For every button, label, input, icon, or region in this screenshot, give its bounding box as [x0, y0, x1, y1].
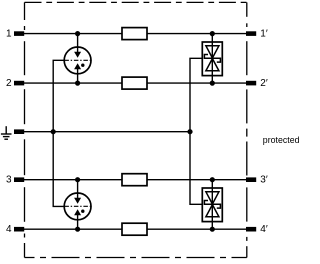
- module boundary dashed border top: [25, 1, 247, 3]
- suppressor diode module D2 (lines 3-4): [202, 180, 222, 230]
- svg-text:2: 2: [6, 78, 12, 89]
- module boundary dashed border right: [246, 2, 248, 257]
- junction dot ground/GDT electrode: [51, 129, 56, 134]
- wire GDT center-electrode vertical (x=53): [53, 60, 64, 206]
- svg-text:1: 1: [6, 28, 12, 39]
- svg-text:3′: 3′: [260, 175, 268, 186]
- wire TVS center-tap vertical (x=190): [190, 58, 202, 204]
- gas discharge tube F2 (lines 3-4): [64, 193, 91, 220]
- svg-text:protected: protected: [263, 135, 300, 145]
- terminal pad 4': [246, 227, 256, 232]
- terminal pad 3': [246, 177, 256, 182]
- svg-text:4′: 4′: [260, 224, 268, 235]
- terminal pad 4: [14, 227, 24, 232]
- ground symbol: [1, 126, 12, 139]
- svg-text:2′: 2′: [260, 78, 268, 89]
- svg-text:3: 3: [6, 175, 12, 186]
- terminal pad 1: [14, 31, 24, 36]
- svg-text:1′: 1′: [260, 28, 268, 39]
- junction dot line4/D2: [210, 227, 215, 232]
- wire line 1: [24, 33, 247, 35]
- wire line 3: [24, 179, 247, 181]
- junction dot line1/GDT1: [75, 31, 80, 36]
- gas discharge tube F1 (lines 1-2): [64, 47, 91, 74]
- terminal pad 2': [246, 81, 256, 86]
- terminal pad 3: [14, 177, 24, 182]
- terminal pad 2: [14, 81, 24, 86]
- junction dot line2/GDT1: [75, 81, 80, 86]
- wire ground bus: [24, 131, 190, 133]
- junction dot line3/GDT2: [75, 177, 80, 182]
- svg-text:4: 4: [6, 224, 12, 235]
- junction dot line3/D2: [210, 177, 215, 182]
- junction dot ground/TVS tap: [187, 129, 192, 134]
- resistor (line 2): [122, 77, 147, 89]
- resistor (line 4): [122, 223, 147, 235]
- junction dot line1/D1: [210, 31, 215, 36]
- resistor (line 3): [122, 174, 147, 186]
- suppressor diode module D1 (lines 1-2): [202, 34, 222, 84]
- resistor (line 1): [122, 28, 147, 40]
- wire line 4: [24, 228, 247, 230]
- wire line 2: [24, 82, 247, 84]
- junction dot line2/D1: [210, 81, 215, 86]
- wire GDT1 vertical through arrester: [77, 34, 79, 84]
- terminal pad ground: [14, 129, 24, 134]
- module boundary dashed border left: [24, 2, 26, 257]
- terminal pad 1': [246, 31, 256, 36]
- module boundary dashed border bottom: [25, 257, 247, 259]
- junction dot line4/GDT2: [75, 227, 80, 232]
- wire GDT2 vertical through arrester: [77, 180, 79, 230]
